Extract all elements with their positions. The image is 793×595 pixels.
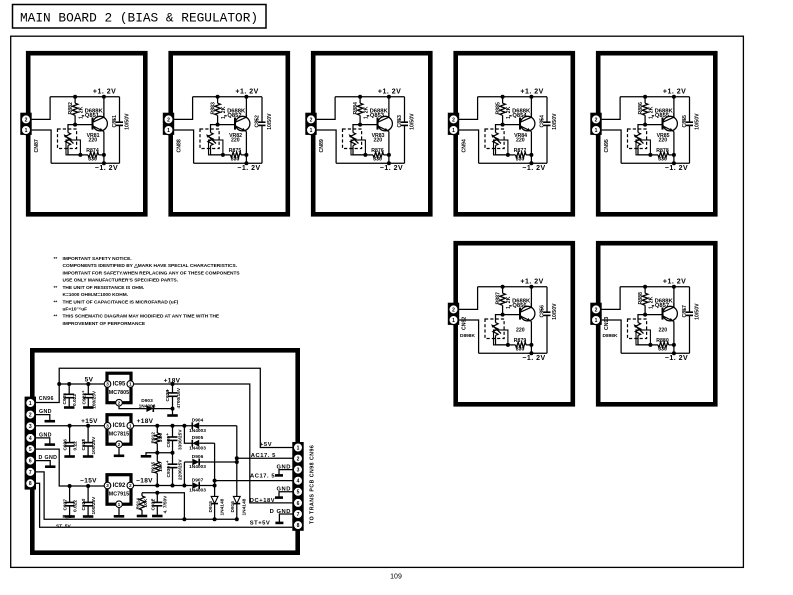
- transistor Q856: [520, 306, 535, 321]
- ground CN96 pin6 D GND: [36, 461, 50, 466]
- svg-text:GND: GND: [39, 409, 52, 415]
- svg-text:R886: R886: [638, 102, 644, 115]
- svg-text:10/50V: 10/50V: [552, 113, 558, 130]
- svg-text:Q853: Q853: [370, 113, 385, 119]
- wire right rail upper: [689, 97, 691, 122]
- regulator IC92 MC7915: [104, 475, 133, 508]
- connector CN95: [590, 113, 601, 135]
- svg-text:C854: C854: [540, 115, 546, 128]
- svg-text:MAIN BOARD 2 (BIAS & REGULATOR: MAIN BOARD 2 (BIAS & REGULATOR): [20, 10, 258, 25]
- svg-text:+1. 2V: +1. 2V: [520, 279, 543, 286]
- svg-text:220: 220: [516, 137, 525, 143]
- wire emitter to bottom rail: [673, 345, 675, 353]
- svg-text:4: 4: [29, 436, 32, 442]
- svg-text:COMPONENTS IDENTIFIED BY △MARK: COMPONENTS IDENTIFIED BY △MARK HAVE SPEC…: [63, 263, 238, 269]
- svg-text:uF=10⁻⁶uF: uF=10⁻⁶uF: [63, 307, 88, 313]
- wire collector to rail: [673, 303, 675, 307]
- svg-text:CN94: CN94: [461, 139, 467, 152]
- wire bottom rail: [194, 162, 262, 164]
- svg-text:220: 220: [88, 137, 97, 143]
- svg-text:CN96: CN96: [39, 396, 54, 402]
- wire top rail: [50, 96, 119, 98]
- wire bottom rail: [621, 352, 689, 354]
- svg-text:2: 2: [452, 117, 455, 123]
- wire emitter to bottom rail: [530, 345, 532, 353]
- wire right rail upper: [546, 97, 548, 122]
- svg-text:0.022: 0.022: [73, 500, 79, 512]
- svg-text:R912: R912: [150, 432, 156, 444]
- wire right rail lower: [261, 125, 263, 163]
- svg-text:R880: R880: [656, 338, 669, 344]
- capacitor C855: [686, 121, 693, 123]
- svg-text:IC92: IC92: [113, 483, 126, 489]
- wire right rail upper: [119, 97, 121, 122]
- wire +15V rail: [36, 425, 104, 427]
- regulator IC91 MC7815: [104, 415, 133, 448]
- wire +18V rail: [134, 425, 193, 427]
- svg-text:D GND: D GND: [39, 455, 58, 461]
- bias block 4 frame: [456, 53, 573, 214]
- wire CN88 pin2 to top rail: [174, 97, 193, 120]
- svg-text:7: 7: [29, 470, 32, 476]
- resistor R875: [223, 154, 231, 156]
- svg-text:330: 330: [516, 347, 525, 353]
- svg-text:1: 1: [129, 382, 132, 388]
- wire base node: [218, 124, 235, 126]
- svg-text:**: **: [54, 314, 58, 320]
- svg-text:+15V: +15V: [81, 418, 98, 425]
- resistor R915: [155, 462, 161, 474]
- transistor Q855: [663, 116, 678, 131]
- svg-text:IC91: IC91: [113, 423, 126, 429]
- svg-text:AC17. 5: AC17. 5: [250, 474, 275, 480]
- svg-text:C924: C924: [81, 499, 87, 511]
- svg-text:Q855: Q855: [655, 113, 670, 119]
- svg-text:R875: R875: [229, 148, 242, 154]
- svg-text:D898K: D898K: [603, 333, 618, 339]
- wire right rail lower: [689, 315, 691, 353]
- svg-text:R874: R874: [86, 148, 99, 154]
- wire -18V rail: [134, 485, 193, 487]
- transistor Q851: [93, 116, 108, 131]
- wire collector to rail: [103, 113, 105, 117]
- svg-text:2: 2: [595, 307, 598, 313]
- svg-text:−1. 2V: −1. 2V: [522, 165, 545, 172]
- svg-text:R888: R888: [638, 292, 644, 305]
- wire right rail upper: [404, 97, 406, 122]
- svg-text:0.22: 0.22: [73, 441, 79, 451]
- svg-text:1N4003: 1N4003: [189, 488, 206, 494]
- svg-text:4: 4: [297, 479, 300, 485]
- svg-text:C931: C931: [151, 499, 157, 511]
- svg-text:D898K: D898K: [460, 333, 475, 339]
- svg-text:−15V: −15V: [80, 478, 97, 485]
- svg-text:109: 109: [390, 574, 402, 581]
- svg-text:R883: R883: [211, 102, 217, 115]
- wire CN87 pin1 to bottom rail: [32, 130, 51, 163]
- wire bottom rail: [479, 162, 547, 164]
- diode D906 1N4003: [184, 461, 192, 463]
- bias block 6 frame: [456, 243, 573, 404]
- svg-text:15K: 15K: [158, 462, 164, 471]
- svg-text:THE UNIT OF CAPACITANCE IS MIC: THE UNIT OF CAPACITANCE IS MICROFARAD (u…: [63, 299, 179, 305]
- svg-text:+1. 2V: +1. 2V: [93, 89, 116, 96]
- svg-text:−1. 2V: −1. 2V: [665, 355, 688, 362]
- wire emitter down: [388, 132, 390, 155]
- svg-text:2: 2: [310, 117, 313, 123]
- svg-text:1: 1: [297, 445, 300, 451]
- ground CN98 pin3: [279, 470, 293, 475]
- capacitor C931: [156, 493, 158, 503]
- wire top rail: [335, 96, 404, 98]
- variable resistor VR85: [628, 129, 647, 149]
- ground CN98 pin5: [279, 492, 293, 497]
- wire emitter to bottom rail: [388, 155, 390, 163]
- svg-text:100/25V: 100/25V: [91, 496, 97, 515]
- wire right rail upper: [689, 287, 691, 312]
- svg-text:R877: R877: [514, 148, 527, 154]
- wire base node: [360, 124, 377, 126]
- svg-text:3300/25V: 3300/25V: [178, 429, 184, 450]
- svg-text:220: 220: [231, 137, 240, 143]
- capacitor C922: [87, 384, 89, 394]
- bias block 1 frame: [28, 53, 145, 214]
- node +1.2V rail: [530, 97, 532, 117]
- wire collector to rail: [673, 113, 675, 117]
- svg-text:GND: GND: [276, 487, 291, 493]
- resistor R887: [502, 287, 504, 293]
- svg-text:2: 2: [167, 117, 170, 123]
- svg-text:IMPORTANT FOR SAFETY.WHEN REPL: IMPORTANT FOR SAFETY.WHEN REPLACING ANY …: [63, 270, 241, 276]
- wire emitter down: [245, 132, 247, 155]
- svg-text:1N4003: 1N4003: [139, 403, 156, 409]
- resistor R882: [74, 97, 76, 103]
- wire base node: [645, 314, 662, 316]
- svg-text:10/50V: 10/50V: [267, 113, 273, 130]
- svg-text:D903: D903: [141, 398, 153, 404]
- capacitor C852: [259, 121, 266, 123]
- wire CN95 pin1 to bottom rail: [602, 130, 622, 163]
- wire CN93 pin2 to top rail: [602, 287, 621, 310]
- resistor R885: [502, 97, 504, 103]
- diode D904 1N4003: [192, 422, 199, 429]
- svg-text:2: 2: [118, 442, 121, 448]
- bias block 5 frame: [598, 53, 715, 214]
- svg-text:10/50V: 10/50V: [695, 113, 701, 130]
- svg-text:D904: D904: [192, 418, 204, 424]
- svg-text:CN88: CN88: [176, 139, 182, 152]
- svg-text:1: 1: [29, 401, 32, 407]
- svg-text:K=1000 OHM.M=1000 KOHM.: K=1000 OHM.M=1000 KOHM.: [63, 292, 129, 298]
- resistor R912: [156, 426, 158, 433]
- connector CN96: [25, 397, 36, 490]
- svg-text:D915: D915: [208, 501, 214, 513]
- wire CN87 pin2 to top rail: [32, 97, 50, 120]
- svg-text:IMPROVEMENT OF PERFORMANCE: IMPROVEMENT OF PERFORMANCE: [63, 321, 146, 327]
- svg-text:2: 2: [452, 307, 455, 313]
- svg-text:R878: R878: [656, 148, 669, 154]
- svg-text:MC7815: MC7815: [109, 432, 129, 438]
- svg-text:Q851: Q851: [85, 113, 100, 119]
- svg-text:10/50V: 10/50V: [410, 113, 416, 130]
- svg-text:Q856: Q856: [512, 303, 527, 309]
- wire CN94 pin2 to top rail: [459, 97, 478, 120]
- svg-text:+1. 2V: +1. 2V: [663, 279, 686, 286]
- wire emitter down: [530, 322, 532, 345]
- connector CN87: [20, 113, 31, 135]
- svg-text:AC17. 5: AC17. 5: [251, 453, 276, 459]
- wire right rail upper: [261, 97, 263, 122]
- svg-text:−1. 2V: −1. 2V: [95, 165, 118, 172]
- svg-text:IMPORTANT SAFETY NOTICE.: IMPORTANT SAFETY NOTICE.: [63, 256, 132, 262]
- svg-text:2200/25V: 2200/25V: [178, 459, 184, 480]
- svg-text:3: 3: [106, 483, 109, 489]
- svg-text:1N4003: 1N4003: [189, 464, 206, 470]
- wire emitter to bottom rail: [673, 155, 675, 163]
- wire AC17.5 pin2: [237, 457, 293, 459]
- svg-text:C851: C851: [112, 115, 118, 128]
- svg-text:Q852: Q852: [227, 113, 241, 119]
- svg-text:D905: D905: [192, 435, 204, 441]
- svg-text:R885: R885: [496, 102, 502, 115]
- capacitor C856: [544, 311, 551, 313]
- wire collector to rail: [245, 113, 247, 117]
- svg-text:R887: R887: [496, 292, 502, 305]
- node +1.2V rail: [673, 287, 675, 307]
- svg-text:−1. 2V: −1. 2V: [237, 165, 260, 172]
- svg-text:C925: C925: [62, 393, 68, 405]
- svg-text:TO TRANS PCB CN98 CN96: TO TRANS PCB CN98 CN96: [310, 445, 316, 524]
- wire 5V rail: [59, 383, 104, 385]
- svg-text:C929: C929: [166, 436, 172, 448]
- svg-text:GND: GND: [39, 433, 52, 439]
- svg-text:1N4003: 1N4003: [189, 428, 206, 434]
- wire base node: [75, 124, 92, 126]
- svg-text:C930: C930: [166, 466, 172, 478]
- svg-text:C856: C856: [540, 305, 546, 318]
- resistor R914: [141, 493, 143, 496]
- capacitor C857: [686, 311, 693, 313]
- svg-text:7: 7: [297, 512, 300, 518]
- wire CN93 pin1 to bottom rail: [602, 320, 622, 353]
- svg-text:10/50V: 10/50V: [552, 303, 558, 320]
- svg-text:1: 1: [25, 128, 28, 134]
- svg-text:1N4003: 1N4003: [189, 445, 206, 451]
- wire right rail lower: [119, 125, 121, 163]
- node +1.2V rail: [673, 97, 675, 117]
- svg-text:D907: D907: [192, 477, 204, 483]
- transistor Q853: [378, 116, 393, 131]
- bias block 7 frame: [598, 243, 715, 404]
- capacitor C929: [172, 426, 174, 437]
- svg-text:C855: C855: [682, 115, 688, 128]
- wire CN96 pin5 to -15V rail: [36, 449, 104, 486]
- wire base node: [503, 124, 520, 126]
- connector CN88: [163, 113, 174, 135]
- svg-text:**: **: [54, 299, 58, 305]
- variable resistor VR81: [58, 129, 77, 149]
- svg-text:C923: C923: [81, 439, 87, 451]
- svg-text:C927: C927: [63, 499, 69, 511]
- svg-text:2: 2: [595, 117, 598, 123]
- svg-text:1: 1: [452, 128, 455, 134]
- svg-text:D906: D906: [192, 454, 204, 460]
- diode D915 1N4148: [211, 496, 218, 503]
- wire right rail lower: [546, 125, 548, 163]
- capacitor C927: [69, 486, 71, 502]
- connector CN92: [448, 303, 459, 325]
- svg-text:CN87: CN87: [34, 139, 40, 152]
- ground CN96 pin4: [36, 438, 50, 444]
- diode D907 1N4003: [192, 482, 199, 489]
- svg-text:330: 330: [516, 157, 525, 163]
- svg-text:+1. 2V: +1. 2V: [663, 89, 686, 96]
- node +1.2V rail: [530, 287, 532, 307]
- safety notes: [54, 256, 241, 327]
- svg-text:D916: D916: [230, 501, 236, 513]
- svg-text:THE UNIT OF RESISTANCE IS OHM.: THE UNIT OF RESISTANCE IS OHM.: [63, 285, 145, 291]
- svg-text:THIS SCHEMATIC DIAGRAM MAY MOD: THIS SCHEMATIC DIAGRAM MAY MODIFIED AT A…: [63, 314, 220, 320]
- resistor R876: [365, 154, 373, 156]
- svg-text:ST_5V: ST_5V: [56, 524, 71, 530]
- ground IC92 pin1: [118, 508, 120, 516]
- capacitor C925: [68, 384, 70, 394]
- wire emitter down: [530, 132, 532, 155]
- svg-text:2: 2: [118, 400, 121, 406]
- wire emitter to bottom rail: [103, 155, 105, 163]
- wire rectifier column B: [214, 443, 216, 496]
- svg-text:4. 7/50V: 4. 7/50V: [162, 495, 168, 514]
- capacitor C854: [544, 121, 551, 123]
- capacitor C851: [116, 121, 123, 123]
- svg-text:DC+18V: DC+18V: [250, 498, 275, 504]
- diode D905 1N4003: [184, 426, 192, 444]
- svg-text:100/25V: 100/25V: [91, 390, 97, 409]
- connector CN89: [305, 113, 316, 135]
- svg-text:2: 2: [297, 457, 300, 463]
- wire ST_5V: [36, 483, 292, 527]
- wire right rail lower: [404, 125, 406, 163]
- wire top rail: [478, 286, 547, 288]
- svg-text:10K: 10K: [158, 433, 164, 442]
- svg-text:P_U: P_U: [63, 514, 73, 520]
- diode D903 1N4003: [119, 406, 146, 409]
- connector CN98: [292, 442, 303, 531]
- svg-text:1: 1: [129, 423, 132, 429]
- resistor R883: [217, 97, 219, 103]
- svg-text:330: 330: [658, 347, 667, 353]
- wire bottom rail: [336, 162, 404, 164]
- svg-text:USE ONLY MANUFACTURER’S SPECIF: USE ONLY MANUFACTURER’S SPECIFIED PARTS.: [63, 278, 179, 284]
- svg-text:1: 1: [167, 128, 170, 134]
- svg-text:1: 1: [452, 318, 455, 324]
- svg-text:+: +: [166, 459, 169, 464]
- svg-text:+1. 2V: +1. 2V: [235, 89, 258, 96]
- svg-text:R884: R884: [353, 102, 359, 115]
- wire bottom rail: [621, 162, 689, 164]
- node +1.2V rail: [103, 97, 105, 117]
- svg-text:3: 3: [297, 468, 300, 474]
- regulator IC95 MC7805: [104, 373, 133, 406]
- variable resistor VR: [485, 319, 504, 339]
- svg-text:3: 3: [29, 424, 32, 430]
- regulator board frame: [32, 350, 297, 552]
- svg-text:2: 2: [129, 483, 132, 489]
- wire right rail upper: [546, 287, 548, 312]
- wire mid node ground: [146, 453, 173, 456]
- bias block 2 frame: [171, 53, 288, 214]
- resistor R888: [644, 287, 646, 293]
- svg-text:220: 220: [373, 137, 382, 143]
- svg-text:MC7805: MC7805: [109, 390, 129, 396]
- capacitor C926: [69, 426, 71, 443]
- ground IC91 pin2: [118, 448, 120, 456]
- svg-text:6: 6: [297, 501, 300, 507]
- svg-text:+1. 2V: +1. 2V: [378, 89, 401, 96]
- svg-text:C926: C926: [63, 439, 69, 451]
- svg-text:GND: GND: [276, 465, 291, 471]
- svg-text:1N4148: 1N4148: [219, 498, 225, 515]
- wire top rail: [193, 96, 262, 98]
- wire bottom rail: [479, 352, 547, 354]
- bias block 3 frame: [313, 53, 430, 214]
- transistor Q857: [663, 306, 678, 321]
- svg-text:+1. 2V: +1. 2V: [520, 89, 543, 96]
- wire collector to rail: [530, 303, 532, 307]
- resistor R884: [359, 97, 361, 103]
- wire top rail: [620, 96, 689, 98]
- wire emitter to bottom rail: [245, 155, 247, 163]
- svg-text:IC95: IC95: [113, 382, 126, 388]
- svg-text:C853: C853: [397, 115, 403, 128]
- svg-text:R914: R914: [135, 498, 141, 510]
- wire +10V rail to DC+18V: [134, 384, 293, 503]
- wire emitter down: [673, 132, 675, 155]
- svg-text:−1. 2V: −1. 2V: [380, 165, 403, 172]
- wire CN89 pin1 to bottom rail: [317, 130, 337, 163]
- wire collector to rail: [530, 113, 532, 117]
- wire collector to rail: [388, 113, 390, 117]
- svg-text:1: 1: [595, 318, 598, 324]
- svg-text:100/25V: 100/25V: [91, 436, 97, 455]
- node +1.2V rail: [245, 97, 247, 117]
- svg-text:ST+5V: ST+5V: [250, 520, 271, 526]
- svg-text:8: 8: [29, 481, 32, 487]
- svg-text:3: 3: [106, 423, 109, 429]
- svg-text:1: 1: [118, 502, 121, 508]
- variable resistor VR82: [200, 129, 219, 149]
- resistor R877: [508, 154, 516, 156]
- wire +5V top distribution: [59, 368, 292, 447]
- svg-text:10/50V: 10/50V: [125, 113, 131, 130]
- capacitor C924: [87, 486, 89, 502]
- wire base node: [503, 314, 520, 316]
- svg-text:CN93: CN93: [604, 317, 610, 330]
- resistor R879: [508, 344, 516, 346]
- svg-text:−1. 2V: −1. 2V: [522, 355, 545, 362]
- wire CN89 pin2 to top rail: [317, 97, 336, 120]
- svg-text:R882: R882: [68, 102, 74, 115]
- svg-text:1: 1: [595, 128, 598, 134]
- wire R914/C931 top: [142, 493, 184, 520]
- svg-text:2: 2: [25, 117, 28, 123]
- svg-text:4700/16V: 4700/16V: [176, 387, 182, 408]
- wire top rail: [620, 286, 689, 288]
- transistor Q852: [235, 116, 250, 131]
- svg-text:C922: C922: [81, 393, 87, 405]
- svg-text:C857: C857: [682, 305, 688, 318]
- connector CN94: [448, 113, 459, 135]
